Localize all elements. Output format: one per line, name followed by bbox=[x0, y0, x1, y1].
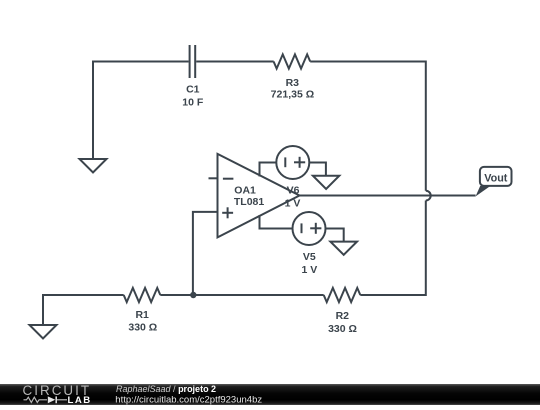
svg-text:Vout: Vout bbox=[484, 172, 508, 184]
wire V5 to ground bbox=[326, 229, 344, 242]
svg-text:http://circuitlab.com/c2ptf923: http://circuitlab.com/c2ptf923un4bz bbox=[115, 394, 262, 405]
wire op-amp output to Vout bbox=[300, 195, 476, 197]
svg-text:721,35 Ω: 721,35 Ω bbox=[271, 88, 314, 100]
voltage source V6 bbox=[276, 146, 309, 179]
ground bbox=[313, 176, 339, 189]
node junction dot bbox=[190, 292, 196, 298]
svg-text:C1: C1 bbox=[186, 84, 200, 96]
ground bbox=[330, 242, 357, 255]
svg-text:R3: R3 bbox=[286, 77, 300, 89]
wire V6 to ground bbox=[309, 163, 326, 176]
op-amp minus sign bbox=[223, 178, 234, 180]
svg-text:TL081: TL081 bbox=[234, 196, 265, 208]
ground bbox=[80, 159, 107, 173]
wire op-amp top power to V6 bbox=[260, 163, 277, 177]
voltage source V5 bbox=[293, 212, 326, 245]
resistor R1 bbox=[124, 288, 161, 302]
logo symbol bbox=[24, 397, 48, 402]
wire C1 to R3 bbox=[196, 61, 274, 63]
svg-text:OA1: OA1 bbox=[234, 185, 256, 197]
wire R3 to corner down to hop bbox=[310, 62, 426, 191]
svg-text:R2: R2 bbox=[336, 310, 350, 322]
wire hop over output bbox=[426, 191, 431, 201]
op-amp OA1 triangle bbox=[218, 154, 300, 238]
wire hop to R2 bbox=[360, 201, 426, 296]
op-amp plus sign bbox=[222, 207, 233, 218]
wire op-amp bottom power to V5 bbox=[260, 215, 293, 229]
Vout flag pointer bbox=[476, 186, 491, 197]
label R2 bbox=[328, 310, 357, 335]
svg-text:RaphaelSaad / projeto 2: RaphaelSaad / projeto 2 bbox=[116, 384, 216, 394]
wire plus input to junction bbox=[193, 212, 218, 295]
svg-text:330 Ω: 330 Ω bbox=[128, 321, 157, 333]
svg-text:R1: R1 bbox=[135, 309, 149, 321]
svg-text:LAB: LAB bbox=[68, 395, 92, 405]
wire R1 to left corner ground bbox=[43, 295, 124, 325]
svg-text:V6: V6 bbox=[287, 184, 300, 196]
label C1 bbox=[182, 84, 204, 109]
wire R2 to junction bbox=[160, 294, 323, 296]
svg-text:10 F: 10 F bbox=[182, 97, 204, 109]
label OA1 bbox=[234, 185, 265, 208]
label R3 bbox=[271, 77, 314, 100]
resistor R2 bbox=[324, 288, 361, 302]
svg-text:330 Ω: 330 Ω bbox=[328, 323, 357, 335]
wire top-left to C1 bbox=[93, 62, 189, 160]
resistor R3 bbox=[274, 54, 311, 68]
label R1 bbox=[128, 309, 157, 333]
ground bbox=[30, 325, 57, 339]
label V6 bbox=[285, 184, 301, 209]
svg-text:1 V: 1 V bbox=[302, 264, 318, 276]
footer bar bbox=[0, 384, 540, 405]
label V5 bbox=[302, 251, 318, 276]
capacitor C1 bbox=[190, 45, 196, 78]
svg-text:1 V: 1 V bbox=[285, 198, 301, 210]
op-amp minus input stub bbox=[209, 177, 218, 179]
svg-text:V5: V5 bbox=[303, 251, 316, 263]
Vout flag box bbox=[480, 167, 512, 186]
